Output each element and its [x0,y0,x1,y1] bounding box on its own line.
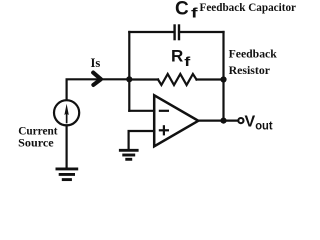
output terminal open circle [238,118,243,123]
svg-text:R: R [171,47,183,66]
svg-text:f: f [191,5,198,21]
wire top capacitor row right [180,31,224,33]
op-amp inverting pin minus sign [159,110,169,112]
wire input horizontal from current source to inverting node [67,79,130,100]
svg-text:C: C [175,0,189,20]
current source arrow up [64,104,68,124]
wire resistor row right stub [197,78,224,80]
wire current source lower lead [65,125,67,167]
wire resistor row left stub [129,78,158,80]
wire non-inverting input to op-amp [129,131,155,149]
wire left vertical feedback branch [128,32,130,111]
wire inverting input to op-amp [129,110,154,112]
current source I1 circle [54,100,79,125]
op-amp U1 triangle [154,95,198,146]
wire op-amp output [198,119,237,121]
node B junction dot (feedback to output) [220,76,226,82]
wire right vertical feedback branch [222,32,224,121]
Is current arrow on wire [93,73,101,85]
ground at op-amp non-inverting input [119,150,139,159]
ground below current source [56,169,79,180]
svg-text:Feedback: Feedback [229,47,278,61]
svg-text:Is: Is [91,55,101,70]
node A junction dot (inverting node) [126,76,132,82]
op-amp non-inverting pin plus sign [159,125,169,135]
svg-text:V: V [245,113,256,130]
wire top capacitor row left [129,31,173,33]
svg-text:out: out [255,119,272,133]
svg-text:Feedback Capacitor: Feedback Capacitor [200,0,297,14]
capacitor C_f plates [175,24,179,40]
node C junction dot (output wire) [220,118,226,124]
svg-text:Resistor: Resistor [229,63,271,77]
svg-text:Source: Source [18,136,54,150]
svg-text:f: f [184,54,191,69]
resistor Rf zigzag [158,74,197,85]
